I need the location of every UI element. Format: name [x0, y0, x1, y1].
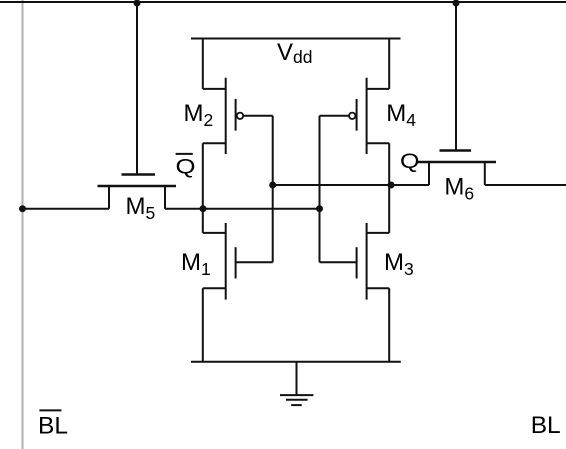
svg-text:BL: BL — [531, 412, 561, 439]
svg-text:Q: Q — [400, 150, 420, 173]
svg-text:BL: BL — [38, 412, 68, 439]
svg-text:Q: Q — [176, 155, 196, 178]
